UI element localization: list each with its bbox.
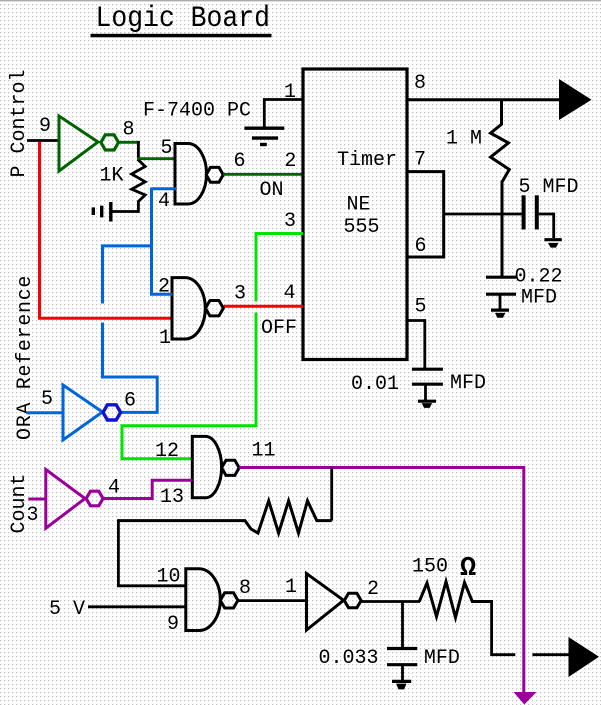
NAND U3B body: [186, 569, 221, 631]
NAND U2A body: [175, 144, 207, 205]
inverter U5 bubble: [86, 491, 103, 506]
svg-text:8: 8: [414, 72, 426, 95]
svg-text:6: 6: [415, 235, 427, 258]
wire: R3 down and right to arrow: [492, 600, 516, 655]
wire red: NAND U2B output 3 to timer pin 4 (OFF): [224, 305, 303, 308]
wire blue: U3 net up to NAND U2A input 4: [152, 187, 177, 190]
ground for C1: [544, 240, 561, 248]
wire green: timer pin 3 to NAND U3A input 12: [122, 234, 303, 459]
svg-text:Timer: Timer: [337, 149, 397, 172]
NAND U3A bubble: [222, 460, 240, 475]
ground (sideways) for 1K: [93, 202, 111, 222]
wire blue: input 5 into inverter U3: [26, 411, 64, 414]
svg-text:Ω: Ω: [460, 554, 476, 584]
ground for pin 1: [244, 128, 284, 144]
wire: timer pin 5 down to capacitor C3: [407, 321, 425, 369]
timer U4 NE555 box: [303, 69, 407, 360]
svg-text:3: 3: [234, 283, 246, 306]
wire: junction to capacitor C4: [401, 602, 404, 648]
inverter U3 bubble: [103, 405, 121, 420]
resistor 1K: [112, 160, 145, 212]
svg-text:9: 9: [167, 613, 179, 636]
resistor R2 (feedback): [118, 501, 331, 533]
wire dark green: NAND U2A output 6 to timer pin 2 (ON): [223, 173, 303, 176]
svg-text:1: 1: [285, 576, 297, 599]
svg-text:OFF: OFF: [261, 317, 297, 340]
svg-text:5: 5: [161, 137, 173, 160]
svg-text:1K: 1K: [100, 165, 124, 188]
NAND U3A body: [192, 436, 221, 497]
svg-text:555: 555: [344, 216, 380, 239]
svg-text:2: 2: [367, 578, 379, 601]
svg-text:0.22: 0.22: [515, 266, 563, 289]
inverter U6 (black): [307, 574, 344, 631]
svg-text:8: 8: [239, 577, 251, 600]
resistor R3 150 ohm: [419, 582, 491, 618]
wire: 5V into NAND U3B input 9: [88, 605, 187, 608]
svg-text:F-7400 PC: F-7400 PC: [143, 100, 251, 123]
svg-text:MFD: MFD: [424, 647, 460, 670]
svg-text:3: 3: [284, 210, 296, 233]
svg-text:Logic Board: Logic Board: [96, 1, 271, 35]
capacitor C4 0.033 MFD: [387, 649, 417, 681]
arrow (purple, down): [514, 692, 537, 705]
NAND U3B bubble: [220, 593, 238, 608]
svg-text:1: 1: [159, 327, 171, 350]
svg-text:5: 5: [41, 388, 53, 411]
svg-text:6: 6: [124, 390, 136, 413]
svg-text:150: 150: [412, 556, 448, 579]
wire: timer pins 7-6 loop: [407, 172, 444, 257]
svg-text:10: 10: [157, 566, 181, 589]
wire: NAND U3B output 8 to inverter U6 input 1: [238, 599, 308, 602]
svg-text:4: 4: [158, 190, 170, 213]
svg-text:9: 9: [39, 115, 51, 138]
svg-text:NE: NE: [347, 194, 371, 217]
svg-text:4: 4: [108, 477, 120, 500]
wire purple: inverter U5 output to NAND U3A input 13: [103, 480, 193, 498]
ground for C3 (filled triangle): [418, 400, 436, 403]
svg-text:12: 12: [155, 440, 179, 463]
capacitor C1 5 MFD: [524, 195, 554, 238]
svg-text:ON: ON: [260, 179, 284, 202]
wire: timer pin 1 to ground: [264, 100, 301, 128]
svg-text:MFD: MFD: [521, 287, 557, 310]
svg-text:ORA Reference: ORA Reference: [14, 275, 37, 440]
svg-text:8: 8: [123, 119, 135, 142]
wire: node to capacitor C1: [444, 213, 522, 216]
wire: feedback from node 11 down to resistor R2: [330, 468, 333, 521]
wire: input 9 into inverter U1: [27, 139, 60, 142]
arrow (black, right, top): [559, 79, 592, 120]
capacitor C3 0.01 MFD: [412, 369, 443, 400]
wire segment after purple crossing: [532, 653, 569, 656]
arrow (black, right): [569, 637, 600, 677]
svg-text:6: 6: [234, 150, 246, 173]
capacitor C2 0.22 MFD: [486, 277, 516, 309]
svg-text:1 M: 1 M: [446, 128, 482, 151]
svg-text:0.033: 0.033: [319, 647, 379, 670]
wire red: node 9 down and across to NAND U2B input 1: [40, 142, 173, 319]
wire: timer pin 8 to arrow: [407, 98, 560, 101]
wire purple: input 3 into inverter U5: [28, 498, 47, 501]
svg-text:2: 2: [284, 150, 296, 173]
inverter U3 (ORA Reference, blue): [63, 385, 102, 440]
svg-text:0.01: 0.01: [351, 373, 399, 396]
svg-text:5 V: 5 V: [49, 598, 85, 621]
svg-text:11: 11: [252, 440, 276, 463]
svg-text:1: 1: [284, 81, 296, 104]
svg-text:MFD: MFD: [450, 372, 486, 395]
inverter U1 (P Control, dark green): [59, 116, 98, 171]
NAND U2A bubble: [206, 167, 223, 182]
title Logic Board: [91, 1, 272, 37]
svg-text:7: 7: [414, 149, 426, 172]
svg-text:5 MFD: 5 MFD: [519, 176, 579, 199]
wire blue: net from inverter U3 output to NAND inputs: [103, 188, 173, 413]
ground for C2: [491, 310, 509, 318]
inverter U1 bubble: [101, 135, 119, 150]
svg-text:5: 5: [415, 296, 427, 319]
svg-text:3: 3: [27, 504, 39, 527]
wire purple: NAND U3A output 11 across and down to arrow: [239, 468, 524, 693]
ground for C4: [392, 681, 411, 689]
wire: corner down to resistor top: [137, 141, 140, 161]
wire dark green: bubble 8 to corner: [119, 141, 140, 144]
wire: feedback down to NAND U3B input 10: [118, 519, 186, 586]
svg-text:4: 4: [284, 282, 296, 305]
wire: inverter U6 output 2 to resistor R3: [361, 600, 420, 603]
inverter U6 bubble: [344, 593, 361, 608]
resistor R1 1M: [491, 100, 510, 277]
svg-text:P Control: P Control: [8, 69, 31, 177]
svg-text:13: 13: [160, 486, 184, 509]
inverter U5 (Count, purple): [46, 470, 85, 529]
NAND U2B bubble: [206, 301, 224, 316]
wire dark green: node 8 to NAND U2A input 5: [137, 157, 176, 160]
NAND U2B body: [172, 278, 205, 339]
